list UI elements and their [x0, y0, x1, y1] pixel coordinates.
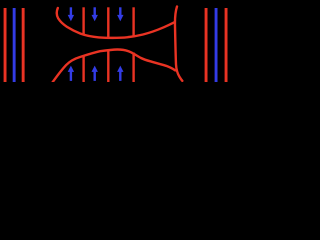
red vertical line bottom 1: [82, 56, 84, 83]
red vertical line bottom 2: [107, 51, 109, 82]
field line curve A (upper sweeping curve): [57, 8, 175, 38]
red vertical line top 2: [107, 7, 109, 37]
field line curve B (lower sweeping curve): [53, 49, 176, 82]
right plate stripe red 2: [225, 8, 228, 82]
blue arrow bottom 1 (up): [68, 66, 74, 81]
blue arrow top 1 (down): [68, 7, 74, 21]
right plate stripe blue: [215, 8, 218, 82]
blue arrow bottom 3 (up): [117, 66, 123, 81]
blue arrow top 3 (down): [117, 7, 123, 21]
red vertical line top 1: [82, 7, 84, 35]
background: [0, 0, 231, 82]
left plate stripe blue: [13, 8, 16, 82]
red vertical line bottom 3: [132, 53, 134, 83]
blue arrow top 2 (down): [92, 7, 98, 21]
right plate stripe red 1: [205, 8, 208, 82]
left plate stripe red 2: [22, 8, 25, 82]
red vertical line top 3: [132, 7, 134, 37]
blue arrow bottom 2 (up): [92, 66, 98, 81]
left plate stripe red 1: [4, 8, 7, 82]
right vertical field line with J-bend: [175, 7, 182, 81]
